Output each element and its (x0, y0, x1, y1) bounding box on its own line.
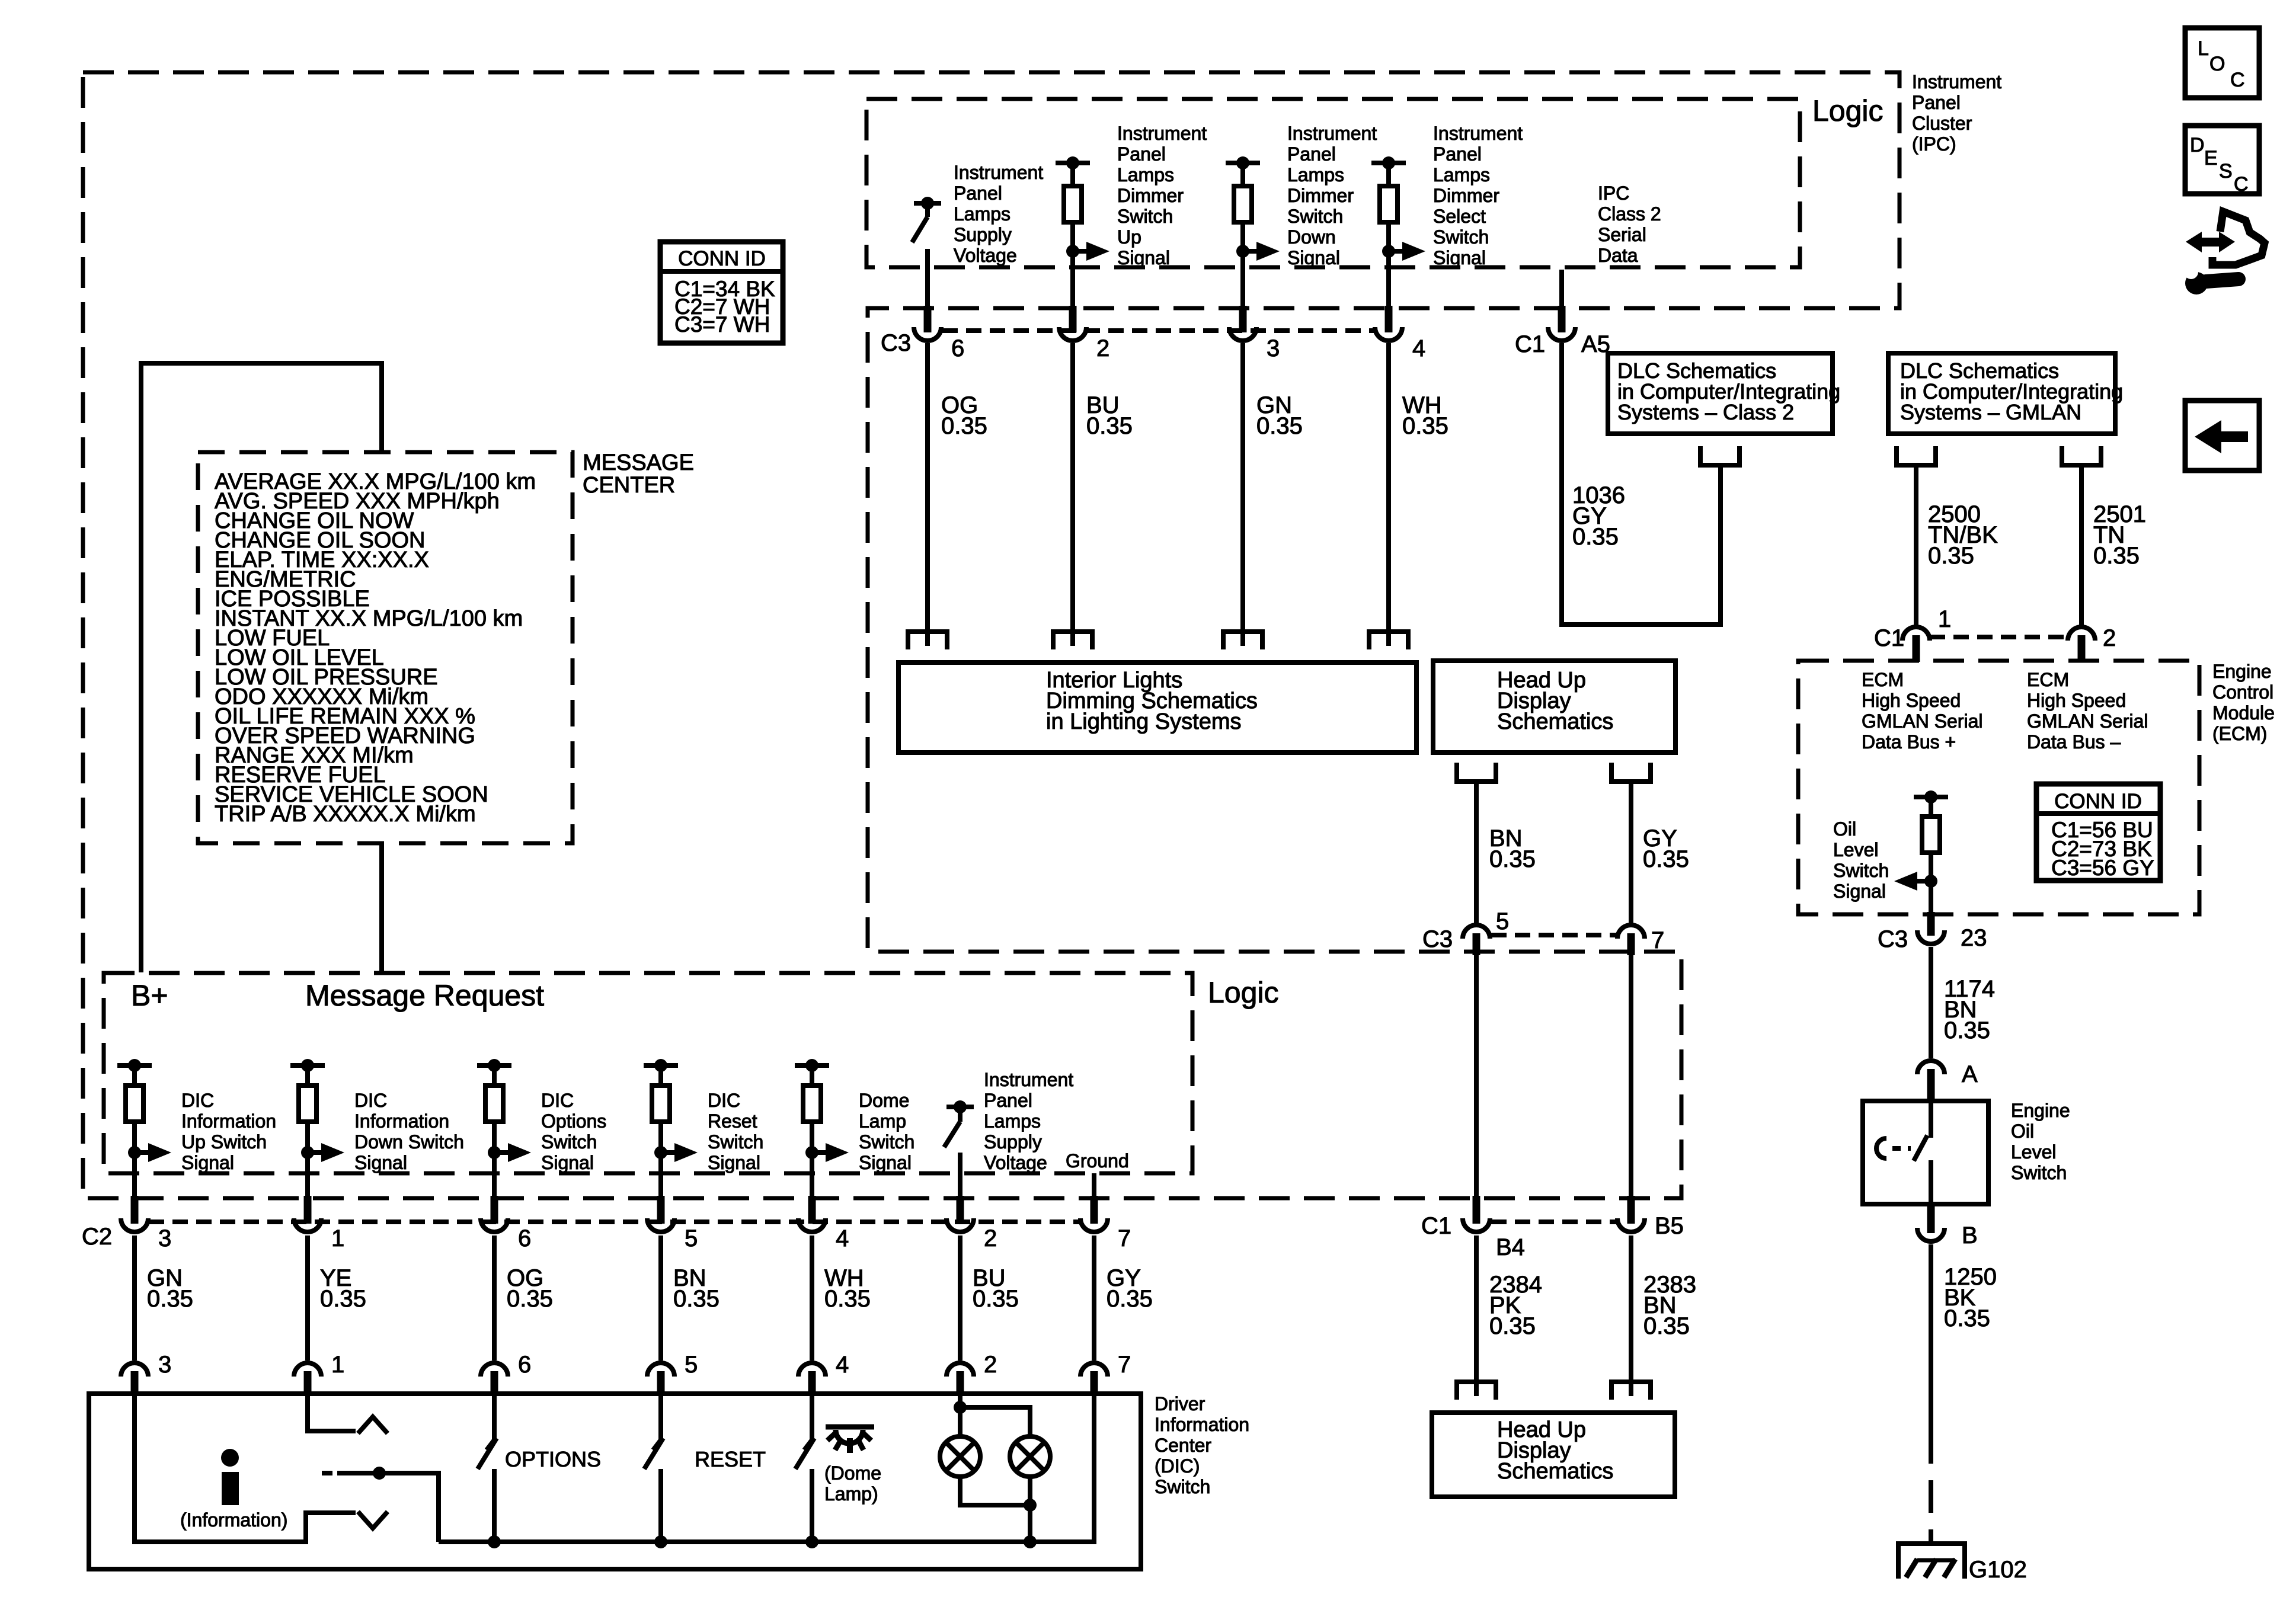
link connector below DLC GMLAN box (bus-) (2062, 446, 2101, 465)
pin terminal cup C2/5 (647, 1218, 674, 1232)
svg-text:0.35: 0.35 (1643, 1313, 1690, 1339)
svg-text:CENTER: CENTER (583, 473, 675, 498)
pin B stub (1927, 1202, 1935, 1233)
pin B4 terminal cup (1463, 1218, 1490, 1232)
svg-text:6: 6 (518, 1225, 531, 1251)
svg-text:0.35: 0.35 (1944, 1305, 1990, 1331)
pin terminal cup C2/3 (121, 1218, 148, 1232)
wire bar to resistor (oil level) (1929, 797, 1933, 817)
wire OPTIONS switch upper (492, 1395, 497, 1440)
link connector below HUD box (GY) (1611, 763, 1651, 782)
back arrow box (2185, 401, 2259, 470)
svg-text:TRIP A/B XXXXX.X Mi/km: TRIP A/B XXXXX.X Mi/km (215, 802, 476, 827)
svg-text:Switch: Switch (1287, 206, 1343, 227)
pin terminal cup C2/6 (481, 1218, 508, 1232)
connector dotted line ECM C1 (1930, 635, 2068, 639)
wire WH 0.35 (to interior lights dimming) (1386, 343, 1391, 646)
pin 1 stub (ECM) (1913, 635, 1920, 662)
wire left lamp to join (960, 1477, 1030, 1505)
wire bar to resistor (DIC 4) (810, 1065, 814, 1086)
svg-text:C1: C1 (1515, 331, 1545, 357)
svg-text:6: 6 (518, 1352, 531, 1378)
RESET switch contact tail (653, 1440, 661, 1450)
svg-text:0.35: 0.35 (1107, 1286, 1153, 1312)
pin 2 terminal cap (ECM) (2068, 627, 2095, 641)
svg-text:Instrument: Instrument (1287, 123, 1377, 144)
svg-text:Data Bus –: Data Bus – (2027, 731, 2121, 753)
svg-text:Switch: Switch (708, 1131, 763, 1153)
svg-text:0.35: 0.35 (1489, 846, 1536, 872)
pull-up bar, IP lamps dimmer switch down (1226, 161, 1260, 165)
LOC reference box (2185, 28, 2259, 98)
svg-text:C3: C3 (881, 330, 911, 356)
svg-text:2: 2 (984, 1225, 997, 1251)
svg-text:5: 5 (1496, 908, 1509, 934)
svg-text:Module: Module (2212, 702, 2275, 724)
pin stub C3/3 (top row) (1239, 306, 1247, 332)
wire DIC information common (staircase) (135, 1395, 356, 1542)
pin stub C2/6 (491, 1196, 498, 1224)
wire resistor to connector (DIC 6) (492, 1122, 497, 1196)
wire BN 0.35 (DIC harness) (658, 1235, 663, 1361)
junction lamp feed (954, 1401, 967, 1414)
svg-text:Up: Up (1117, 226, 1141, 248)
svg-text:Lamps: Lamps (1433, 164, 1490, 185)
pull-up bar, DIC Lamp 4 (795, 1063, 829, 1068)
pin stub DIC/2 (957, 1371, 964, 1395)
svg-text:Systems – Class 2: Systems – Class 2 (1617, 400, 1794, 424)
pull-up bar, oil level switch signal (1914, 795, 1948, 799)
svg-text:Supply: Supply (984, 1131, 1042, 1153)
link connector below DLC GMLAN box (bus+) (1897, 446, 1936, 465)
junction lamps (1024, 1499, 1037, 1512)
pin B5 terminal cup (1617, 1218, 1645, 1232)
svg-text:Panel: Panel (1287, 143, 1336, 165)
link connector above HUD box (PK) (1457, 1382, 1496, 1400)
pin stub DIC/1 (304, 1371, 312, 1395)
pin terminal cup C2/7 (1080, 1218, 1108, 1232)
svg-text:IPC: IPC (1598, 183, 1629, 204)
wire lamps to bus (1028, 1505, 1032, 1542)
svg-text:DIC: DIC (181, 1090, 214, 1111)
svg-text:Systems – GMLAN: Systems – GMLAN (1900, 400, 2081, 424)
junction (dimmer switch down) (1236, 245, 1249, 258)
wire left lamp drop (958, 1407, 962, 1436)
svg-text:Panel: Panel (954, 183, 1002, 204)
svg-text:CONN ID: CONN ID (678, 247, 766, 270)
svg-text:C: C (2234, 173, 2249, 196)
wire RESET switch upper (658, 1395, 663, 1440)
svg-text:Cluster: Cluster (1912, 113, 1972, 134)
junction (DIC 1) (301, 1146, 314, 1159)
svg-text:C1: C1 (1874, 625, 1904, 651)
pin A terminal cap (1917, 1061, 1945, 1074)
wire resistor to C3 pin 23 (1929, 853, 1933, 912)
svg-text:ECM: ECM (1862, 669, 1904, 690)
CONN ID table (IPC connectors) (660, 242, 783, 343)
svg-text:Lamps: Lamps (954, 203, 1011, 225)
signal arrow (DIC 4) (812, 1150, 827, 1155)
svg-text:0.35: 0.35 (941, 413, 987, 439)
wire resistor to connector (DIC 3) (132, 1122, 137, 1196)
bus junction (dome lamp) (805, 1535, 818, 1548)
diagnostic icon double arrow (2186, 232, 2235, 252)
svg-text:0.35: 0.35 (147, 1286, 193, 1312)
svg-text:0.35: 0.35 (824, 1286, 871, 1312)
wire 2500 TN/BK 0.35 (1914, 465, 1918, 627)
svg-text:Down: Down (1287, 226, 1336, 248)
svg-text:(Information): (Information) (180, 1509, 287, 1531)
svg-text:Instrument: Instrument (984, 1069, 1073, 1090)
svg-text:3: 3 (1267, 335, 1280, 361)
svg-text:0.35: 0.35 (973, 1286, 1019, 1312)
svg-text:Lamps: Lamps (1287, 164, 1344, 185)
svg-text:Select: Select (1433, 206, 1486, 227)
wire 2384 PK 0.35 (1474, 1235, 1479, 1396)
wire 2383 BN (B5 column upper) (1629, 955, 1633, 1196)
wire resistor to connector (dimmer switch down) (1240, 222, 1245, 308)
svg-text:Control: Control (2212, 681, 2273, 703)
svg-text:Switch: Switch (1117, 206, 1173, 227)
wire BU lamp feed (958, 1395, 962, 1407)
oil level switch dashed actuator link (1892, 1146, 1911, 1151)
DESC reference box (2185, 126, 2259, 194)
lower Logic dashed box (message request logic) (104, 973, 1192, 1173)
wire bar to resistor (dimmer switch down) (1240, 163, 1245, 186)
pin stub C2/4 (808, 1196, 816, 1224)
svg-text:0.35: 0.35 (1402, 413, 1448, 439)
svg-text:0.35: 0.35 (1572, 524, 1619, 550)
link connector above HUD box (BN) (1611, 1382, 1651, 1400)
svg-text:0.35: 0.35 (1928, 543, 1974, 569)
pin terminal cap DIC/7 (1080, 1363, 1108, 1377)
upper Logic dashed box (866, 99, 1800, 267)
svg-text:Signal: Signal (181, 1152, 234, 1173)
Engine Oil Level Switch box (1863, 1101, 1988, 1204)
wire 1174 BN 0.35 (1929, 947, 1933, 1058)
harness link connector above interior lights box (908, 632, 947, 649)
svg-text:B+: B+ (131, 979, 168, 1012)
switch, IP lamps supply voltage (DIC feed) (946, 1105, 974, 1109)
svg-text:4: 4 (1412, 335, 1425, 361)
oil level switch blade (1914, 1135, 1927, 1161)
svg-text:Lamps: Lamps (984, 1110, 1041, 1132)
svg-text:A: A (1962, 1061, 1978, 1087)
wire 1250 BK 0.35 (solid) (1929, 1244, 1933, 1431)
svg-text:Lamps: Lamps (1117, 164, 1174, 185)
information icon stem (222, 1472, 239, 1505)
down contact chevron (358, 1512, 388, 1528)
wire resistor to connector (DIC 4) (810, 1122, 814, 1196)
svg-text:Switch: Switch (859, 1131, 914, 1153)
connector dotted line C2 (149, 1219, 1080, 1224)
wire resistor to connector (DIC 5) (658, 1122, 663, 1196)
pin 23 terminal cup (ECM C3) (1917, 930, 1945, 944)
svg-text:3: 3 (158, 1352, 171, 1378)
resistor, DIC switch signal 1 (299, 1086, 316, 1122)
OPTIONS switch blade (478, 1438, 497, 1469)
DLC Schematics GMLAN box (1888, 353, 2115, 434)
pull-up bar, DIC Options 6 (477, 1063, 511, 1068)
wire GY 0.35 (DIC harness) (1092, 1235, 1096, 1361)
junction (oil level signal) (1924, 875, 1937, 888)
wire RESET switch lower (658, 1469, 663, 1542)
svg-text:C3=56 GY: C3=56 GY (2051, 856, 2154, 880)
pin stub C3/2 (top row) (1069, 306, 1077, 332)
resistor, oil level switch signal (1922, 817, 1940, 853)
bus junction (RESET) (654, 1535, 667, 1548)
pin terminal cap DIC/3 (121, 1363, 148, 1377)
svg-text:4: 4 (836, 1352, 849, 1378)
svg-text:Level: Level (2011, 1141, 2057, 1163)
svg-text:Signal: Signal (1833, 881, 1886, 902)
oil level switch wire lower (1929, 1160, 1933, 1204)
pin A stub (1927, 1069, 1935, 1102)
information icon dot (221, 1449, 239, 1467)
svg-text:C3: C3 (1422, 926, 1453, 952)
svg-text:Engine: Engine (2212, 661, 2272, 682)
harness link connector above interior lights box (1369, 632, 1408, 649)
junction on common wire (373, 1467, 386, 1480)
pull-up bar, DIC Reset 5 (644, 1063, 678, 1068)
svg-text:2: 2 (984, 1352, 997, 1378)
svg-text:G102: G102 (1969, 1557, 2027, 1583)
svg-text:7: 7 (1118, 1352, 1131, 1378)
svg-text:Switch: Switch (1155, 1476, 1210, 1497)
wire resistor to connector (dimmer switch up) (1070, 222, 1075, 308)
pin stub C3/A5 (top row) (1558, 306, 1566, 332)
pin stub DIC/7 (1091, 1371, 1098, 1395)
resistor, IP lamps dimmer switch down (1234, 186, 1252, 222)
pin terminal cup C3/6 (914, 327, 941, 341)
pin stub C3/4 (top row) (1385, 306, 1393, 332)
svg-text:C: C (2230, 69, 2245, 91)
wire OPTIONS switch lower (492, 1469, 497, 1542)
wire 1250 BK to ground (dashed) (1929, 1431, 1933, 1542)
svg-text:(ECM): (ECM) (2212, 723, 2267, 744)
svg-text:O: O (2209, 53, 2225, 75)
dome lamp icon (826, 1425, 874, 1430)
wire right lamp to join (1028, 1477, 1032, 1505)
bulb lamp left (940, 1436, 980, 1477)
RESET switch blade (644, 1438, 663, 1469)
svg-text:Instrument: Instrument (1433, 123, 1523, 144)
junction (DIC 3) (128, 1146, 141, 1159)
pin terminal cup C3/4 (1375, 327, 1402, 341)
wire resistor to connector (DIC 1) (305, 1122, 310, 1196)
resistor, IP lamps dimmer select switch (1380, 186, 1398, 222)
svg-text:Signal: Signal (859, 1152, 912, 1173)
Head Up Display Schematics box (upper) (1433, 661, 1675, 753)
OPTIONS switch contact tail (487, 1440, 494, 1450)
svg-text:4: 4 (836, 1225, 849, 1251)
junction (dimmer select switch) (1382, 245, 1395, 258)
svg-text:2: 2 (2103, 625, 2116, 651)
svg-text:Information: Information (181, 1110, 276, 1132)
svg-text:Center: Center (1155, 1435, 1211, 1456)
wire bar to resistor (DIC 3) (132, 1065, 137, 1086)
svg-text:0.35: 0.35 (1944, 1017, 1990, 1044)
pin stub C3/6 (top row) (924, 306, 932, 332)
diagnostic icon wrench (2185, 272, 2208, 295)
pin B4 stub (1473, 1196, 1480, 1224)
info switch common pole dash (322, 1471, 332, 1475)
svg-text:Logic: Logic (1812, 94, 1884, 127)
svg-text:High Speed: High Speed (2027, 690, 2126, 711)
svg-text:Up Switch: Up Switch (181, 1131, 267, 1153)
wire 1036 GY 0.35 (class 2 serial data) (1562, 343, 1721, 625)
svg-text:Dimmer: Dimmer (1433, 185, 1499, 206)
svg-text:(Dome: (Dome (824, 1462, 881, 1484)
oil level switch wire upper (1929, 1101, 1933, 1138)
svg-text:Dome: Dome (859, 1090, 909, 1111)
svg-text:D: D (2190, 134, 2205, 156)
svg-text:Signal: Signal (1433, 247, 1486, 268)
wire bar to resistor (DIC 1) (305, 1065, 310, 1086)
svg-text:0.35: 0.35 (1643, 846, 1689, 872)
ECM module dashed box (1798, 661, 2199, 914)
pin 5 stub (1473, 933, 1480, 955)
svg-text:(DIC): (DIC) (1155, 1455, 1200, 1477)
svg-text:1: 1 (1938, 606, 1951, 632)
svg-text:3: 3 (158, 1225, 171, 1251)
MESSAGE CENTER dashed box (198, 452, 573, 843)
svg-text:Lamp): Lamp) (824, 1483, 878, 1505)
pin 2 stub (ECM) (2078, 635, 2086, 662)
wire BU 0.35 (to interior lights dimming) (1070, 343, 1075, 646)
wire 2384 PK (B4 column upper) (1474, 955, 1479, 1196)
pin 7 terminal cap (1617, 925, 1645, 939)
up contact chevron (358, 1417, 388, 1433)
svg-text:Switch: Switch (2011, 1162, 2067, 1183)
svg-text:B5: B5 (1655, 1213, 1684, 1239)
svg-text:Data Bus +: Data Bus + (1862, 731, 1956, 753)
svg-text:Panel: Panel (984, 1090, 1032, 1111)
svg-text:Dimmer: Dimmer (1287, 185, 1354, 206)
svg-text:Instrument: Instrument (954, 162, 1043, 183)
svg-text:2: 2 (1096, 335, 1109, 361)
svg-text:Panel: Panel (1433, 143, 1482, 165)
svg-text:C3=7 WH: C3=7 WH (674, 312, 770, 337)
Interior Lights Dimming Schematics box (898, 662, 1416, 753)
pin terminal cup C2/2 (946, 1218, 974, 1232)
svg-text:GMLAN Serial: GMLAN Serial (2027, 710, 2148, 732)
svg-text:C2: C2 (82, 1224, 112, 1250)
wire GN 0.35 (DIC harness) (132, 1235, 137, 1361)
svg-text:Voltage: Voltage (984, 1152, 1047, 1173)
svg-text:0.35: 0.35 (1489, 1313, 1536, 1339)
junction (DIC 6) (488, 1146, 501, 1159)
pin terminal cap DIC/1 (294, 1363, 321, 1377)
svg-text:Down Switch: Down Switch (354, 1131, 464, 1153)
svg-text:DIC: DIC (708, 1090, 740, 1111)
wire bar to resistor (dimmer switch up) (1070, 163, 1075, 186)
wire lamp branch top (960, 1407, 1030, 1436)
svg-text:Switch: Switch (1833, 860, 1889, 881)
signal arrow (DIC 3) (135, 1150, 150, 1155)
pin stub DIC/5 (657, 1371, 665, 1395)
link connector below HUD box (BN) (1457, 763, 1496, 782)
pull-up bar, IP lamps dimmer switch up (1056, 161, 1090, 165)
oil level signal arrow (left) (1916, 879, 1931, 884)
Head Up Display Schematics box (lower) (1432, 1413, 1675, 1497)
wire message center to logic box (379, 843, 384, 972)
pin terminal cup C3/3 (1229, 327, 1256, 341)
pin B5 stub (1627, 1196, 1635, 1224)
svg-text:C3: C3 (1878, 926, 1908, 952)
svg-text:0.35: 0.35 (673, 1286, 720, 1312)
wire DIC info down feed (308, 1395, 356, 1431)
svg-text:ECM: ECM (2027, 669, 2069, 690)
svg-text:Serial: Serial (1598, 224, 1646, 245)
connector dotted line C3 (HUD row) (1491, 933, 1616, 937)
dome lamp switch blade (795, 1438, 814, 1469)
svg-text:0.35: 0.35 (1086, 413, 1133, 439)
svg-text:Oil: Oil (2011, 1121, 2034, 1142)
harness link connector above interior lights box (1223, 632, 1262, 649)
svg-text:Schematics: Schematics (1497, 1459, 1613, 1484)
svg-text:RESET: RESET (695, 1447, 766, 1471)
link connector below DLC Class 2 box (1700, 446, 1739, 465)
svg-text:7: 7 (1118, 1225, 1131, 1251)
svg-text:Voltage: Voltage (954, 245, 1017, 266)
wire resistor to connector (dimmer select switch) (1386, 222, 1391, 308)
svg-text:Instrument: Instrument (1912, 71, 2001, 92)
svg-text:in Lighting Systems: in Lighting Systems (1046, 709, 1242, 734)
pull-up bar, DIC Information 3 (117, 1063, 152, 1068)
svg-text:Information: Information (1155, 1414, 1249, 1435)
svg-text:Schematics: Schematics (1497, 709, 1613, 734)
svg-text:Engine: Engine (2011, 1100, 2070, 1121)
Driver Information Center (DIC) Switch box (89, 1394, 1141, 1569)
connector dotted line C1 (B4/B5) (1491, 1219, 1616, 1224)
svg-text:Driver: Driver (1155, 1393, 1205, 1414)
connector dotted line C3 (top row) (942, 328, 1374, 333)
resistor, DIC switch signal 4 (803, 1086, 821, 1122)
signal arrow (dimmer switch up) (1073, 249, 1088, 254)
wire bar to resistor (DIC 6) (492, 1065, 497, 1086)
wire 2501 TN 0.35 (2079, 465, 2084, 627)
junction (DIC 5) (654, 1146, 667, 1159)
pin stub C2/1 (304, 1196, 312, 1224)
pin stub DIC/4 (808, 1371, 816, 1395)
svg-text:7: 7 (1651, 927, 1664, 953)
svg-text:Oil: Oil (1833, 818, 1856, 840)
resistor, DIC switch signal 6 (485, 1086, 503, 1122)
svg-text:Signal: Signal (1117, 247, 1170, 268)
svg-text:Ground: Ground (1066, 1150, 1129, 1172)
dome lamp switch contact tail (804, 1440, 812, 1450)
pin terminal cap DIC/4 (798, 1363, 826, 1377)
svg-text:0.35: 0.35 (507, 1286, 553, 1312)
pin B terminal cup (1917, 1228, 1945, 1241)
wire bar to resistor (dimmer select switch) (1386, 163, 1391, 186)
pin stub C2/7 (1091, 1196, 1098, 1224)
pin terminal cup C2/1 (294, 1218, 321, 1232)
svg-text:MESSAGE: MESSAGE (583, 450, 694, 475)
signal arrow (dimmer switch down) (1243, 249, 1258, 254)
signal arrow (DIC 5) (661, 1150, 676, 1155)
signal arrow (DIC 1) (308, 1150, 323, 1155)
svg-text:23: 23 (1961, 925, 1987, 951)
DLC Schematics Class 2 box (1608, 353, 1833, 434)
pin 5 terminal cap (1463, 925, 1490, 939)
harness link connector above interior lights box (1053, 632, 1092, 649)
svg-text:1: 1 (331, 1225, 344, 1251)
signal arrow (DIC 6) (494, 1150, 510, 1155)
bus junction (lamps) (1024, 1535, 1037, 1548)
svg-text:Panel: Panel (1117, 143, 1166, 165)
